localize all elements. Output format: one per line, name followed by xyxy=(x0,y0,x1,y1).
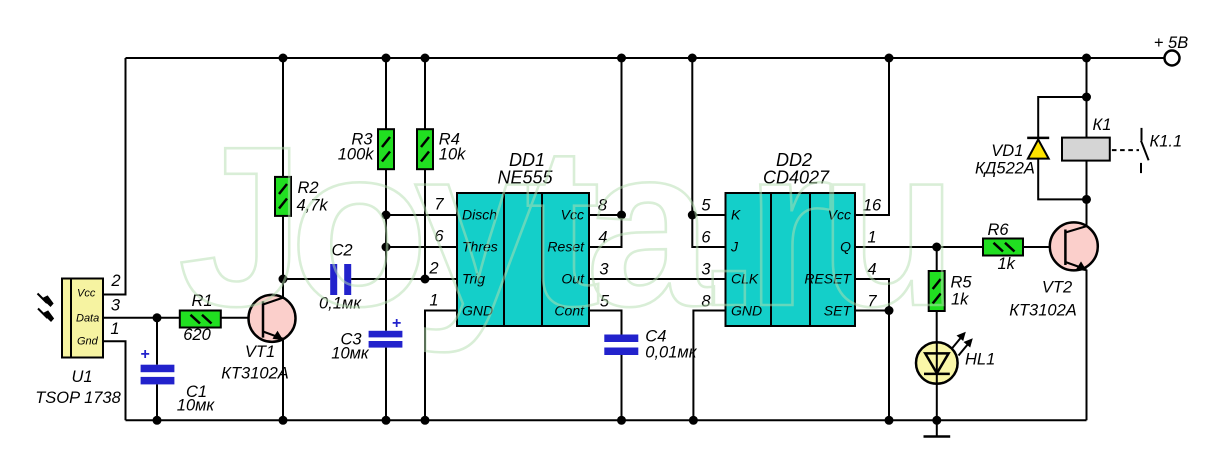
svg-text:Data: Data xyxy=(76,312,99,324)
node DD2 set ground junction xyxy=(885,416,894,425)
node C1 ground junction xyxy=(153,416,162,425)
wire DD2 Q output xyxy=(855,246,983,248)
wire DD2 pin4 RESET tie xyxy=(855,279,889,311)
svg-text:HL1: HL1 xyxy=(965,351,995,369)
LED HL1 xyxy=(916,332,973,421)
op-amp DD2 CD4027 body xyxy=(726,193,856,326)
capacitor C4 plates xyxy=(604,335,638,356)
wire DD2 pin16 Vcc to top rail xyxy=(855,58,889,215)
svg-text:VD1: VD1 xyxy=(991,142,1023,160)
node SET/RESET junction xyxy=(885,306,894,315)
svg-text:КТ3102А: КТ3102А xyxy=(1009,302,1077,320)
wire R6 to VT2 base xyxy=(1023,246,1065,248)
node top rail DD2 K tie xyxy=(688,54,697,63)
node Thres junction xyxy=(382,243,391,252)
wire R5 to HL1 xyxy=(936,311,938,342)
node top rail DD1 Vcc xyxy=(617,54,626,63)
wire relay node to VT2 collector xyxy=(1086,199,1088,227)
node DD1 gnd junction xyxy=(421,416,430,425)
node top rail R2 junction xyxy=(279,54,288,63)
wire DD1 pin5 Cont to C4 xyxy=(589,311,622,335)
wire C3 to ground rail xyxy=(385,348,387,421)
node DD1 Vcc junction xyxy=(617,211,626,220)
node relay/VD1 bottom junction xyxy=(1082,195,1091,204)
wire Vcc tie to top rail xyxy=(621,58,623,215)
wire K to DD2 pin5 xyxy=(692,214,725,216)
svg-text:1: 1 xyxy=(110,320,119,338)
wire DD1 pin8 Vcc xyxy=(589,214,622,216)
wire DD2 pin6 J tie xyxy=(692,215,725,247)
svg-text:+: + xyxy=(141,346,150,363)
node Data/C1 junction xyxy=(153,313,162,322)
diode VD1 xyxy=(1027,138,1049,159)
wire top rail to R4 xyxy=(424,58,426,129)
svg-text:VT2: VT2 xyxy=(1042,279,1072,297)
wire DD1 Out to DD2 CLK xyxy=(589,278,726,280)
resistor R5 body xyxy=(929,271,945,311)
resistor R1 body xyxy=(180,311,221,328)
IR arrows into U1 xyxy=(38,294,54,322)
node DD2 K junction xyxy=(688,211,697,220)
wire DD1 GND pin1 to ground xyxy=(425,311,457,421)
svg-text:Gnd: Gnd xyxy=(77,336,99,348)
svg-text:10мк: 10мк xyxy=(177,397,216,415)
wire top rail to DD2 K xyxy=(691,58,693,215)
svg-text:К1: К1 xyxy=(1093,116,1112,134)
node C3 ground junction xyxy=(382,416,391,425)
wire bottom ground rail xyxy=(126,419,1087,421)
node Disch junction xyxy=(382,211,391,220)
wire R1 to VT1 base xyxy=(221,317,263,319)
wire DD1 pin4 Reset tie xyxy=(589,215,622,247)
node top rail R4 junction xyxy=(421,54,430,63)
svg-text:КД522А: КД522А xyxy=(975,160,1035,178)
node DD2 gnd junction xyxy=(689,416,698,425)
node Q/R5 junction xyxy=(932,243,941,252)
node Trig/R4 junction xyxy=(421,275,430,284)
wire VD1 top branch xyxy=(1038,97,1086,140)
resistor R4 body xyxy=(417,129,433,169)
wire C4 to ground rail xyxy=(621,355,623,420)
contact K1.1 xyxy=(1112,128,1149,173)
wire U1 Gnd to bottom rail xyxy=(103,341,126,420)
wire Thres node down to C3 xyxy=(385,247,387,331)
wire VT2 emitter to ground rail xyxy=(1086,270,1088,421)
resistor R3 body xyxy=(378,129,394,169)
wire VT1 emitter to ground xyxy=(282,339,284,421)
node R2/C2/VT1 collector junction xyxy=(279,275,288,284)
svg-text:Joyta.ru: Joyta.ru xyxy=(178,100,958,354)
svg-text:К1.1: К1.1 xyxy=(1150,133,1183,151)
capacitor C3 plates xyxy=(369,315,403,348)
node top rail R3 junction xyxy=(382,54,391,63)
svg-text:2: 2 xyxy=(110,272,120,290)
node top rail DD2 Vcc xyxy=(885,54,894,63)
capacitor C2 plates xyxy=(330,264,351,295)
svg-text:Vcc: Vcc xyxy=(77,288,96,300)
node top rail relay branch xyxy=(1082,54,1091,63)
transistor VT2 xyxy=(1050,222,1098,271)
wire R2 to junction xyxy=(282,216,284,279)
node HL1 ground junction xyxy=(932,416,941,425)
wire Q to R5 xyxy=(936,247,938,271)
wire R3 to Disch node xyxy=(385,169,387,215)
wire left rail to U1 Vcc xyxy=(103,58,126,295)
wire R4 to Trig node xyxy=(424,169,426,279)
wire C2 to DD1 Trig xyxy=(351,278,457,280)
wire top rail to R3 xyxy=(385,58,387,129)
wire top +5V rail xyxy=(126,57,1165,59)
wire U1 Data to R1 xyxy=(103,317,180,319)
svg-text:TSOP 1738: TSOP 1738 xyxy=(35,389,121,407)
wire Thres to DD1 pin6 xyxy=(386,246,457,248)
svg-text:1k: 1k xyxy=(998,255,1016,273)
power terminal +5B xyxy=(1154,34,1188,66)
wire relay to VT2 collector node xyxy=(1086,161,1088,200)
wire Disch to DD1 pin7 xyxy=(386,214,457,216)
svg-text:+ 5В: + 5В xyxy=(1154,34,1188,52)
resistor R2 body xyxy=(275,177,291,216)
svg-text:U1: U1 xyxy=(71,368,92,386)
transistor VT1 xyxy=(249,295,296,342)
node relay/VD1 top junction xyxy=(1082,93,1091,102)
svg-text:R6: R6 xyxy=(987,221,1009,239)
relay K1 coil xyxy=(1062,138,1110,161)
svg-text:3: 3 xyxy=(111,297,121,315)
watermark Joyta.ru xyxy=(178,100,958,354)
node VT1 emitter ground junction xyxy=(279,416,288,425)
wire DD2 pin7 SET to ground xyxy=(855,310,889,312)
wire junction to C2 xyxy=(283,278,330,280)
svg-text:КТ3102А: КТ3102А xyxy=(221,365,289,383)
resistor R6 body xyxy=(983,239,1023,256)
IC U1 TSOP1738 body xyxy=(62,279,103,358)
node C4 ground junction xyxy=(617,416,626,425)
capacitor C1 plates xyxy=(141,346,175,384)
op-amp DD1 NE555 body xyxy=(457,193,589,326)
wire VT1 collector xyxy=(282,279,284,299)
wire top rail to relay branch xyxy=(1086,58,1088,138)
wire C1 to ground rail xyxy=(156,384,158,420)
wire VD1 bottom branch xyxy=(1038,159,1086,200)
ground symbol xyxy=(924,420,951,436)
wire C1 branch xyxy=(156,318,158,365)
wire SET tie to ground rail xyxy=(888,311,890,421)
wire DD2 GND pin8 to ground xyxy=(693,311,725,421)
wire top rail to R2 xyxy=(282,58,284,177)
wire Disch to Thres xyxy=(385,215,387,247)
